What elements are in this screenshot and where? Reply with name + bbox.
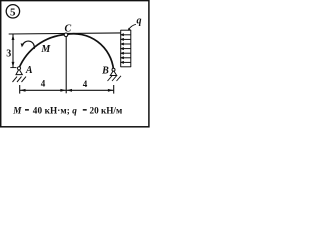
svg-text:A: A [25,65,33,76]
svg-text:20 кН/м: 20 кН/м [90,106,123,116]
circled number 5 [6,5,19,19]
moment arc M [21,41,35,49]
arch left half A to C [19,35,66,69]
svg-text:C: C [64,24,71,35]
distributed load q ladder [121,30,131,67]
label q with leader [128,16,142,31]
svg-text:3: 3 [6,49,11,60]
hatching under B [108,76,113,81]
svg-text:M: M [40,44,51,55]
arch right half C to B [66,34,114,70]
svg-text:4: 4 [83,79,88,89]
top horizontal line [9,33,121,34]
svg-text:5: 5 [10,6,16,18]
svg-text:M: M [12,106,22,116]
border frame [1,1,149,127]
svg-text:q: q [72,106,77,116]
hinge node C [64,33,68,37]
load arrowheads [120,33,124,64]
svg-text:40 кН·м;: 40 кН·м; [33,106,70,116]
dimension line 3 (vertical) [10,34,16,68]
support B (pin) [108,68,122,81]
svg-text:B: B [101,65,109,76]
hatching under A [13,77,18,82]
vertical line under C [65,35,67,93]
dimension line 4+4 (horizontal) [20,85,114,94]
support A (pin) [13,67,27,82]
svg-text:4: 4 [41,79,46,89]
svg-text:q: q [137,16,142,27]
